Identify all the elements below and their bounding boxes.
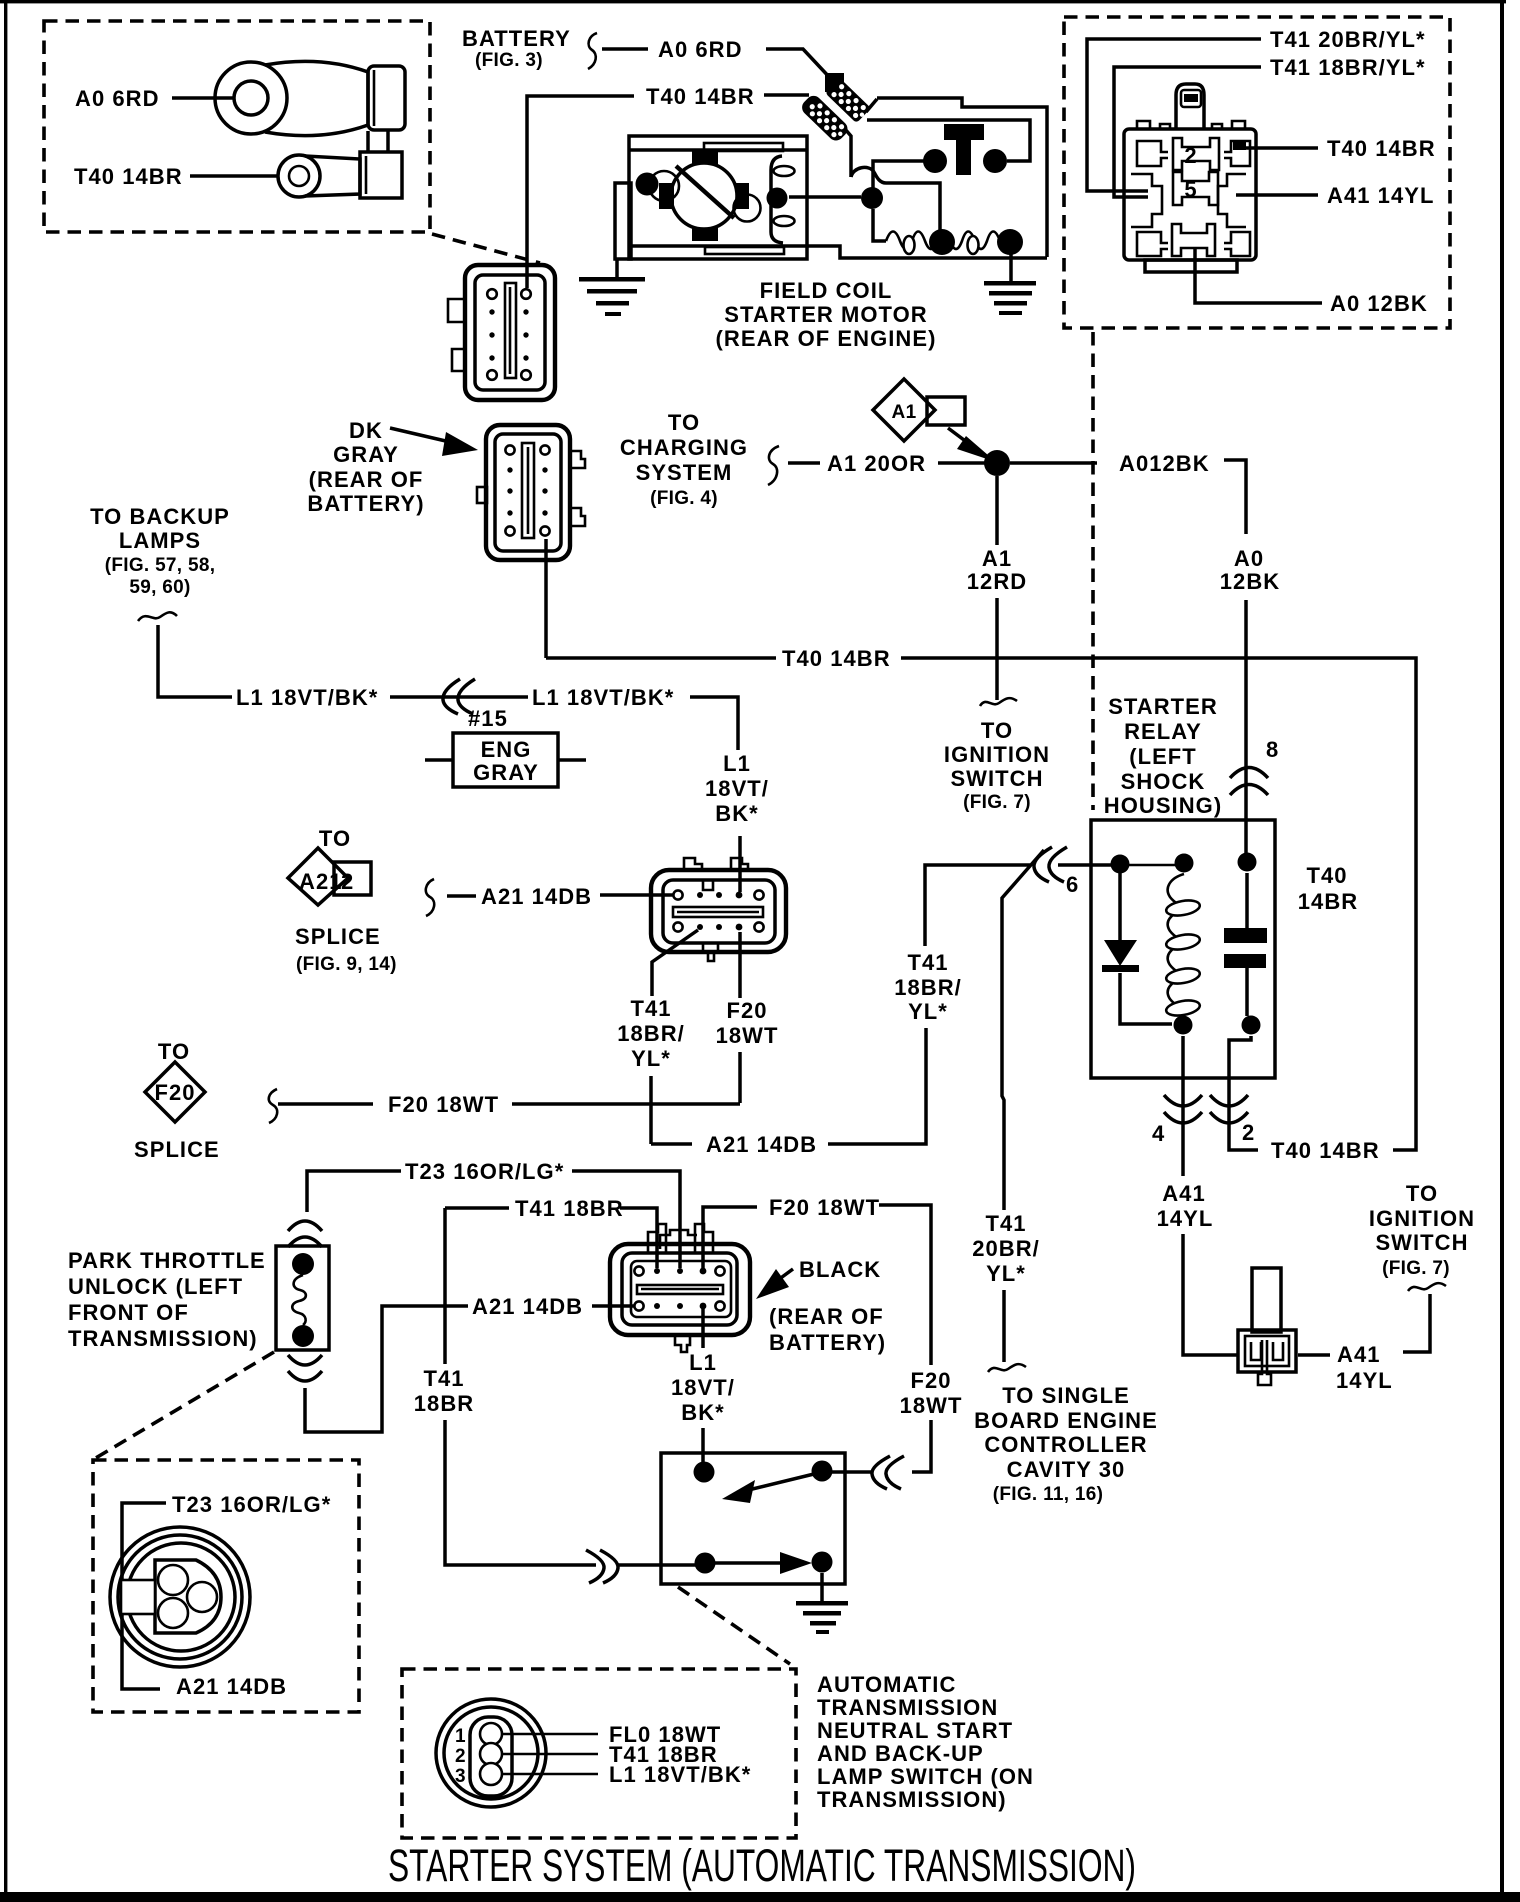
solenoid second wire xyxy=(867,120,1030,161)
switch lever with arrow xyxy=(740,1474,814,1492)
svg-text:2: 2 xyxy=(1184,143,1197,168)
svg-text:BLACK: BLACK xyxy=(799,1257,881,1282)
svg-text:BATTERY): BATTERY) xyxy=(307,491,424,516)
svg-text:AUTOMATIC: AUTOMATIC xyxy=(817,1672,956,1697)
svg-text:59, 60): 59, 60) xyxy=(129,577,190,598)
connector C2 DK GRAY (rear of battery) xyxy=(477,425,585,560)
squiggle (charging) xyxy=(768,446,779,485)
svg-text:TO: TO xyxy=(158,1039,190,1064)
hop-over arc from cable wire xyxy=(851,167,874,177)
inline connector chevrons #15 xyxy=(443,679,460,714)
wire A0 12BK down to relay xyxy=(1244,600,1248,855)
svg-text:8: 8 xyxy=(1266,737,1279,762)
svg-text:STARTER MOTOR: STARTER MOTOR xyxy=(724,302,928,327)
svg-text:BK*: BK* xyxy=(681,1400,725,1425)
wire T41 column down xyxy=(649,1076,653,1144)
wire T40 14BR down to connector xyxy=(527,96,634,288)
ENG GRAY box xyxy=(453,733,558,787)
dashed leader line (relay location) xyxy=(1091,332,1095,810)
svg-text:14YL: 14YL xyxy=(1336,1368,1393,1393)
starter motor housing xyxy=(615,136,807,259)
T contact solid xyxy=(944,124,984,140)
switch bottom contact arrow xyxy=(715,1561,786,1565)
svg-text:TO: TO xyxy=(668,410,700,435)
wire-continues squiggle xyxy=(588,33,597,69)
svg-text:14YL: 14YL xyxy=(1157,1206,1214,1231)
svg-text:A21 14DB: A21 14DB xyxy=(472,1294,583,1319)
wire dot5 elbow to pin2 xyxy=(1229,1036,1258,1150)
svg-text:A41: A41 xyxy=(1162,1181,1206,1206)
round connector detail xyxy=(110,1527,250,1667)
wire A1 20OR to junction xyxy=(938,461,990,465)
arrow from A1 splice to junction xyxy=(948,428,980,452)
svg-text:18VT/: 18VT/ xyxy=(705,776,769,801)
svg-text:#15: #15 xyxy=(468,706,508,731)
diagonal wire to T41 20BR xyxy=(1002,850,1044,1210)
svg-text:A41 14YL: A41 14YL xyxy=(1327,183,1434,208)
neutral start switch box xyxy=(661,1453,845,1584)
svg-text:BATTERY): BATTERY) xyxy=(769,1330,886,1355)
svg-text:AND BACK-UP: AND BACK-UP xyxy=(817,1741,984,1766)
svg-text:A21: A21 xyxy=(299,869,343,894)
arrow DK GRAY to connector xyxy=(390,428,450,442)
ring terminal T40 (small eyelet) xyxy=(278,131,402,198)
svg-text:F20 18WT: F20 18WT xyxy=(388,1092,499,1117)
relay diode xyxy=(1118,873,1122,940)
svg-text:T41 20BR/YL*: T41 20BR/YL* xyxy=(1270,27,1426,52)
chevron break 2 xyxy=(1210,1095,1248,1106)
wire A21 cross line right xyxy=(828,1028,926,1144)
hatched battery cable A0 xyxy=(825,78,871,124)
svg-text:FRONT OF: FRONT OF xyxy=(68,1300,189,1325)
wire A1 12RD down xyxy=(995,476,999,545)
svg-text:DK: DK xyxy=(349,418,383,443)
svg-text:A0: A0 xyxy=(1234,546,1264,571)
wire L1 C4 bottom pin down xyxy=(701,1306,705,1348)
wire L1 to switch xyxy=(701,1428,705,1464)
arrow BLACK to connector xyxy=(778,1269,793,1280)
svg-text:LAMP SWITCH (ON: LAMP SWITCH (ON xyxy=(817,1764,1034,1789)
svg-text:NEUTRAL START: NEUTRAL START xyxy=(817,1718,1013,1743)
svg-text:2: 2 xyxy=(1242,1120,1255,1145)
junction to coil elbow xyxy=(873,209,886,241)
svg-text:(FIG. 4): (FIG. 4) xyxy=(650,488,718,509)
wire to inline connector xyxy=(390,695,528,699)
connector C3 (gray, rear of battery) xyxy=(651,858,786,961)
junction dot A1/A0 xyxy=(984,450,1010,476)
svg-text:5: 5 xyxy=(1184,177,1197,202)
svg-text:CONTROLLER: CONTROLLER xyxy=(984,1432,1147,1457)
svg-text:18BR: 18BR xyxy=(414,1391,474,1416)
relay connector body xyxy=(1124,84,1256,272)
svg-text:CAVITY 30: CAVITY 30 xyxy=(1007,1457,1126,1482)
wire F20 column down xyxy=(738,1052,742,1103)
svg-text:T40 14BR: T40 14BR xyxy=(782,646,891,671)
svg-text:1: 1 xyxy=(455,1726,466,1747)
wire elbow down xyxy=(690,697,738,750)
svg-text:TO: TO xyxy=(319,826,351,851)
svg-text:TRANSMISSION): TRANSMISSION) xyxy=(817,1787,1007,1812)
chevron break (switch feed) xyxy=(586,1550,604,1583)
wire from label to hatched cable xyxy=(766,49,832,80)
svg-text:SPLICE: SPLICE xyxy=(134,1137,220,1162)
svg-text:SWITCH: SWITCH xyxy=(950,766,1043,791)
long T40 wire right segment xyxy=(901,658,1416,1150)
wire junction to right xyxy=(1010,461,1097,465)
chevron break 4 xyxy=(1164,1095,1202,1106)
wire A1 12RD to squiggle xyxy=(995,598,999,700)
wire dot4 to pin 4 xyxy=(1181,1036,1185,1176)
wire 6 into relay xyxy=(1058,863,1120,867)
wire label to C3 pin xyxy=(600,893,675,897)
svg-text:18WT: 18WT xyxy=(900,1393,963,1418)
wire to F20 18WT label xyxy=(278,1102,373,1106)
svg-text:PARK THROTTLE: PARK THROTTLE xyxy=(68,1248,266,1273)
svg-text:F20: F20 xyxy=(154,1080,195,1105)
chevron break 8 xyxy=(1230,768,1268,779)
svg-text:TO: TO xyxy=(981,718,1013,743)
svg-text:(FIG. 57, 58,: (FIG. 57, 58, xyxy=(105,555,216,576)
motor terminal dot xyxy=(636,173,659,196)
park throttle unlock solenoid xyxy=(276,1246,329,1350)
wire A21 cross line left xyxy=(651,1142,692,1146)
wire T41 20BR down to SBEC xyxy=(1002,1290,1006,1362)
svg-text:(REAR OF: (REAR OF xyxy=(769,1304,884,1329)
dashed leader to T23 detail xyxy=(94,1352,274,1459)
wire right T41 column up xyxy=(925,865,1030,946)
wire F20 label to C4 xyxy=(703,1207,757,1271)
svg-text:A1: A1 xyxy=(892,402,917,423)
svg-text:GRAY: GRAY xyxy=(473,760,539,785)
svg-text:L1 18VT/BK*: L1 18VT/BK* xyxy=(609,1762,751,1787)
svg-text:TRANSMISSION: TRANSMISSION xyxy=(817,1695,998,1720)
svg-text:YL*: YL* xyxy=(908,999,948,1024)
wire T41 label to C4 xyxy=(620,1208,657,1268)
svg-text:T40: T40 xyxy=(1306,863,1347,888)
svg-text:ENG: ENG xyxy=(481,737,532,762)
svg-text:UNLOCK (LEFT: UNLOCK (LEFT xyxy=(68,1274,243,1299)
svg-text:(REAR OF ENGINE): (REAR OF ENGINE) xyxy=(716,326,937,351)
svg-text:12RD: 12RD xyxy=(967,569,1027,594)
ground (switch) xyxy=(796,1601,848,1634)
relay top dots xyxy=(1111,855,1130,874)
svg-text:4: 4 xyxy=(1152,1121,1165,1146)
armature diagonal xyxy=(676,166,734,218)
svg-text:T41: T41 xyxy=(985,1211,1026,1236)
svg-text:HOUSING): HOUSING) xyxy=(1104,793,1222,818)
svg-text:FIELD COIL: FIELD COIL xyxy=(760,278,893,303)
solenoid bottom edge xyxy=(808,246,1047,258)
svg-text:SPLICE: SPLICE xyxy=(295,924,381,949)
wire to left pin 2 xyxy=(1114,67,1261,197)
chevron break (F20 switch) xyxy=(872,1456,890,1489)
wire to A1 20OR label xyxy=(788,461,820,465)
field coil bracket xyxy=(771,156,783,243)
svg-text:A21 14DB: A21 14DB xyxy=(481,884,592,909)
svg-text:STARTER SYSTEM (AUTOMATIC TRAN: STARTER SYSTEM (AUTOMATIC TRANSMISSION) xyxy=(388,1840,1136,1891)
svg-text:TO: TO xyxy=(1406,1181,1438,1206)
wire F20 col to switch chevron xyxy=(912,1420,931,1472)
svg-text:T40 14BR: T40 14BR xyxy=(646,84,755,109)
svg-text:T40 14BR: T40 14BR xyxy=(74,164,183,189)
chevron break above park solenoid xyxy=(288,1221,322,1231)
starter relay box xyxy=(1091,820,1275,1078)
svg-text:T40 14BR: T40 14BR xyxy=(1327,136,1436,161)
wire T41 column to switch xyxy=(445,1420,596,1565)
svg-text:20BR/: 20BR/ xyxy=(972,1236,1040,1261)
svg-text:BATTERY: BATTERY xyxy=(462,26,571,51)
relay pin cavities xyxy=(1131,138,1250,256)
svg-text:CHARGING: CHARGING xyxy=(620,435,748,460)
switch dots xyxy=(694,1462,715,1483)
wire T23 to connector C4 xyxy=(572,1171,680,1268)
svg-text:F20 18WT: F20 18WT xyxy=(769,1195,880,1220)
brush loop right xyxy=(734,195,761,222)
svg-text:RELAY: RELAY xyxy=(1124,719,1202,744)
splice symbol F20 xyxy=(145,1062,205,1122)
svg-text:A1 20OR: A1 20OR xyxy=(827,451,926,476)
svg-text:2: 2 xyxy=(455,1746,466,1767)
connector C1 (engine harness 8-pin) xyxy=(448,265,555,400)
svg-text:F20: F20 xyxy=(726,998,767,1023)
relay bottom dots xyxy=(1174,1016,1193,1035)
dashed leader from box corner to connector xyxy=(432,234,540,263)
squiggle (A21 label) xyxy=(426,879,434,916)
svg-text:TRANSMISSION): TRANSMISSION) xyxy=(68,1326,258,1351)
splice symbol A1 xyxy=(873,379,965,441)
switch ground wire xyxy=(820,1573,824,1602)
hatched battery cable T40 xyxy=(799,93,851,144)
svg-text:(FIG. 7): (FIG. 7) xyxy=(963,792,1031,813)
wire A21 park label to C4 xyxy=(592,1304,636,1308)
svg-text:3: 3 xyxy=(455,1766,466,1787)
svg-text:A41: A41 xyxy=(1337,1342,1381,1367)
wire F20 column xyxy=(738,932,742,998)
chevron break 6 xyxy=(1034,847,1052,882)
relay connector detail dashed box xyxy=(1064,17,1450,328)
junction dot xyxy=(861,187,883,209)
svg-text:18VT/: 18VT/ xyxy=(671,1375,735,1400)
field coil terminal dot xyxy=(767,188,788,209)
svg-text:A0 6RD: A0 6RD xyxy=(75,86,160,111)
svg-text:A21 14DB: A21 14DB xyxy=(706,1132,817,1157)
long T40 14BR wire xyxy=(546,656,776,660)
svg-text:(FIG. 7): (FIG. 7) xyxy=(1382,1258,1450,1279)
wire chevron to switch xyxy=(618,1563,696,1567)
contact dot left xyxy=(923,149,947,173)
motor armature circle xyxy=(671,163,737,229)
oval connector detail dashed box xyxy=(402,1669,796,1838)
svg-text:T40 14BR: T40 14BR xyxy=(1271,1138,1380,1163)
svg-text:SHOCK: SHOCK xyxy=(1121,769,1206,794)
break squiggle (SBEC) xyxy=(988,1364,1026,1372)
connector C4 black (rear of battery) xyxy=(610,1224,750,1352)
brush blocks xyxy=(692,151,718,164)
svg-text:T41 18BR: T41 18BR xyxy=(515,1196,624,1221)
dashed leader to oval detail xyxy=(678,1587,790,1664)
battery terminal detail dashed box xyxy=(44,21,430,232)
connector A41 (ignition feed) xyxy=(1238,1268,1296,1385)
wire A41 down to connector xyxy=(1183,1234,1238,1355)
svg-text:L1 18VT/BK*: L1 18VT/BK* xyxy=(532,685,674,710)
svg-text:T41 18BR/YL*: T41 18BR/YL* xyxy=(1270,55,1426,80)
wire A0 elbow xyxy=(1224,460,1246,534)
battery clamp solid square xyxy=(825,73,844,92)
wire C3 pin to T41 column xyxy=(652,930,698,996)
wire connector to label xyxy=(1298,1353,1330,1357)
wire field coil to junction xyxy=(789,195,861,199)
svg-text:SWITCH: SWITCH xyxy=(1375,1230,1468,1255)
svg-text:T41: T41 xyxy=(907,950,948,975)
wire L1 to label xyxy=(158,625,232,697)
ring terminal A0 (battery cable eyelet) xyxy=(215,61,405,135)
splice symbol A21-2 xyxy=(288,848,371,905)
svg-text:A0 12BK: A0 12BK xyxy=(1330,291,1428,316)
wire hop to coil xyxy=(874,172,940,231)
svg-text:YL*: YL* xyxy=(986,1261,1026,1286)
wire leader to ring terminal T40 xyxy=(190,174,278,178)
solenoid pull-in coil xyxy=(886,232,1012,250)
wire to left pin xyxy=(1087,39,1261,191)
detail leader bracket xyxy=(122,1503,166,1689)
relay coil xyxy=(1168,874,1184,1014)
svg-text:(FIG. 11, 16): (FIG. 11, 16) xyxy=(993,1484,1104,1505)
wire ignition to A41 label xyxy=(1403,1294,1430,1352)
solenoid top wire xyxy=(877,98,1047,257)
svg-text:T41: T41 xyxy=(423,1366,464,1391)
chevron break below park solenoid xyxy=(288,1355,322,1365)
svg-text:(REAR OF: (REAR OF xyxy=(309,467,424,492)
wire A0 6RD to battery cable xyxy=(602,47,648,51)
svg-text:BOARD ENGINE: BOARD ENGINE xyxy=(974,1408,1158,1433)
svg-text:(FIG. 9, 14): (FIG. 9, 14) xyxy=(296,954,397,975)
svg-text:YL*: YL* xyxy=(631,1046,671,1071)
break squiggle (backup lamps) xyxy=(138,612,177,621)
svg-text:GRAY: GRAY xyxy=(333,442,399,467)
svg-text:12BK: 12BK xyxy=(1220,569,1280,594)
pin wires xyxy=(502,1733,598,1736)
svg-text:T23 16OR/LG*: T23 16OR/LG* xyxy=(172,1492,331,1517)
svg-text:2: 2 xyxy=(341,869,354,894)
svg-text:A1: A1 xyxy=(982,546,1012,571)
svg-text:L1 18VT/BK*: L1 18VT/BK* xyxy=(236,685,378,710)
brush loop left xyxy=(649,171,679,201)
svg-text:L1: L1 xyxy=(723,751,751,776)
svg-text:18WT: 18WT xyxy=(716,1023,779,1048)
svg-text:(LEFT: (LEFT xyxy=(1129,744,1197,769)
wire to A21 14DB label xyxy=(447,894,476,898)
wire leader to ring terminal A0 xyxy=(172,96,234,100)
wire T23 label line xyxy=(307,1171,401,1212)
T23 detail dashed box xyxy=(93,1460,359,1712)
svg-text:T23 16OR/LG*: T23 16OR/LG* xyxy=(405,1159,564,1184)
wire left contact to junction xyxy=(873,161,924,188)
wire F20 label right to column xyxy=(879,1205,931,1365)
wire T41 18BR long vertical xyxy=(443,1208,447,1364)
svg-text:BK*: BK* xyxy=(715,801,759,826)
wire T40 label to cable xyxy=(764,93,809,97)
relay internal top wire xyxy=(1120,864,1184,867)
svg-text:14BR: 14BR xyxy=(1298,889,1358,914)
svg-text:A21 14DB: A21 14DB xyxy=(176,1674,287,1699)
svg-text:L1: L1 xyxy=(689,1350,717,1375)
motor ground wire xyxy=(615,259,619,277)
svg-text:T41: T41 xyxy=(630,996,671,1021)
svg-text:A012BK: A012BK xyxy=(1119,451,1210,476)
svg-text:6: 6 xyxy=(1066,872,1079,897)
wire chevron to switch right dot xyxy=(824,1470,872,1474)
contact dot right xyxy=(983,149,1007,173)
svg-text:IGNITION: IGNITION xyxy=(1369,1206,1475,1231)
svg-text:TO SINGLE: TO SINGLE xyxy=(1002,1383,1130,1408)
oval connector (switch face) xyxy=(436,1699,546,1807)
break squiggle (ignition) xyxy=(980,698,1017,706)
coil right dot xyxy=(997,229,1023,255)
svg-text:(FIG. 3): (FIG. 3) xyxy=(475,50,543,71)
svg-text:LAMPS: LAMPS xyxy=(119,528,201,553)
svg-text:18BR/: 18BR/ xyxy=(894,975,962,1000)
squiggle (ignition right) xyxy=(1408,1283,1446,1291)
squiggle (F20 label) xyxy=(269,1089,277,1123)
coil center dot xyxy=(929,229,955,255)
svg-text:IGNITION: IGNITION xyxy=(944,742,1050,767)
svg-text:SYSTEM: SYSTEM xyxy=(636,460,733,485)
svg-text:STARTER: STARTER xyxy=(1108,694,1218,719)
svg-text:A0 6RD: A0 6RD xyxy=(658,37,743,62)
wire T41 18BR label line xyxy=(445,1206,509,1210)
solenoid ground wire xyxy=(1009,254,1013,281)
ground (motor) xyxy=(579,277,645,316)
wire F20 label to column xyxy=(512,1102,740,1106)
cable tip wires xyxy=(866,99,877,112)
wire into connector C3 xyxy=(738,836,742,892)
svg-text:TO BACKUP: TO BACKUP xyxy=(90,504,230,529)
wire park bottom to A21 label xyxy=(305,1306,468,1432)
ground (solenoid) xyxy=(984,281,1036,315)
wire C2 to T40 line xyxy=(544,539,548,658)
relay capacitor contact xyxy=(1245,873,1249,928)
svg-text:F20: F20 xyxy=(910,1368,951,1393)
svg-text:18BR/: 18BR/ xyxy=(617,1021,685,1046)
